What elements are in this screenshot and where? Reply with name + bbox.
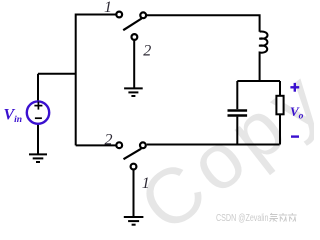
svg-text:1: 1 bbox=[142, 175, 150, 192]
svg-text:2: 2 bbox=[143, 43, 151, 60]
svg-text:CSDN @Zevalin: CSDN @Zevalin bbox=[216, 213, 269, 224]
svg-text:Vin: Vin bbox=[4, 107, 23, 126]
svg-text:1: 1 bbox=[104, 0, 112, 16]
svg-text:2: 2 bbox=[105, 131, 113, 148]
svg-text:Copy: Copy bbox=[123, 51, 314, 232]
